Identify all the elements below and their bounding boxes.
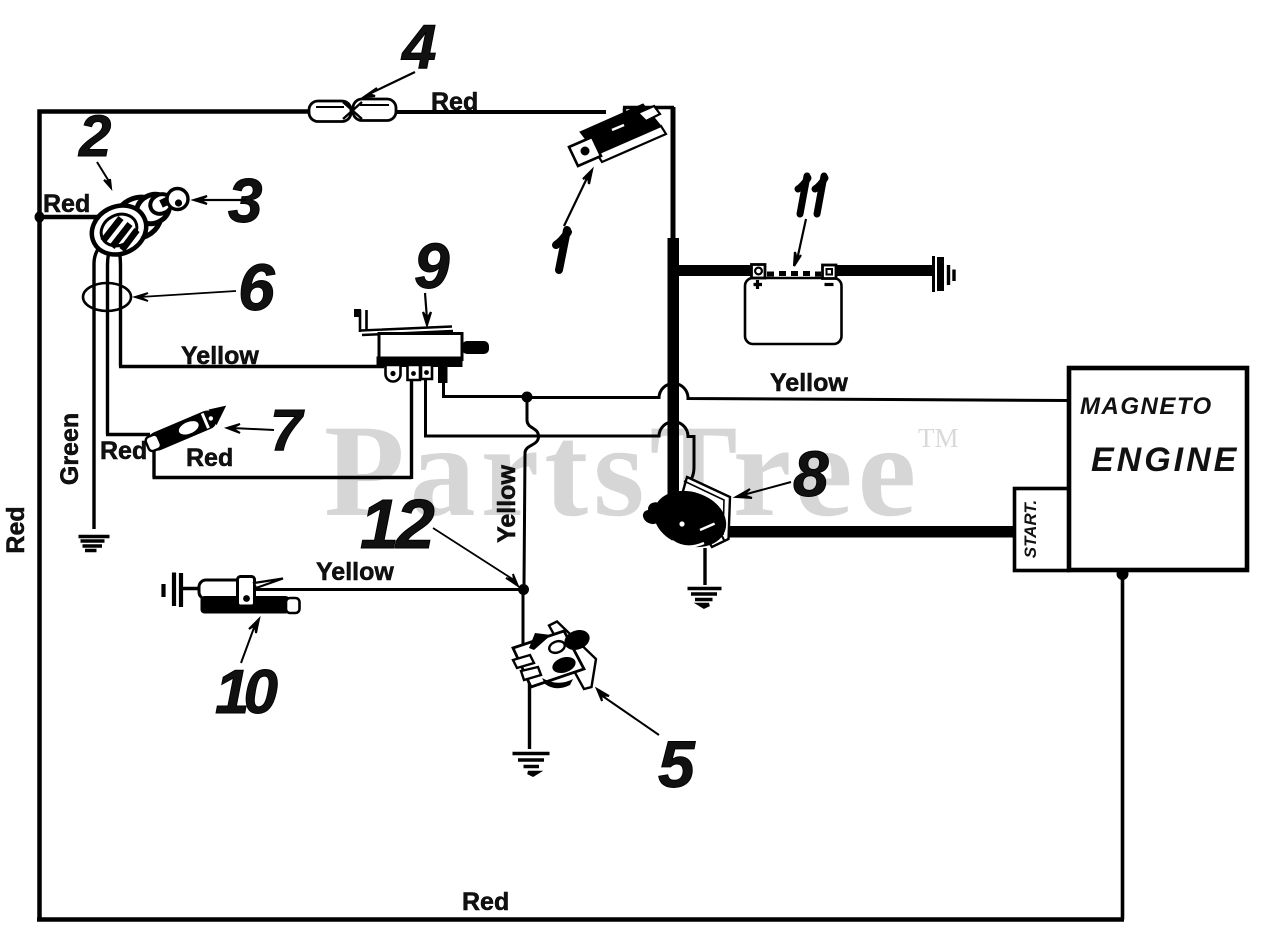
interlock switch 10 body	[199, 577, 300, 614]
label 1	[556, 230, 568, 270]
wire junction 12 down to switch5	[522, 594, 525, 651]
switch 9 terminal 2	[408, 365, 421, 380]
ignition switch 2	[83, 189, 175, 264]
svg-text:12: 12	[360, 485, 435, 563]
svg-text:Red: Red	[100, 437, 147, 465]
switch 9 plunger	[462, 341, 489, 354]
wire red top (left segment to fuse)	[38, 109, 311, 114]
svg-text:Green: Green	[56, 413, 84, 485]
wire thick battery right to ground	[834, 265, 933, 276]
svg-text:Yellow: Yellow	[181, 342, 259, 370]
svg-text:ENGINE: ENGINE	[1091, 441, 1239, 479]
svg-text:Yellow: Yellow	[770, 369, 848, 397]
svg-text:3: 3	[228, 167, 262, 236]
label 11	[798, 176, 825, 214]
wire green vertical	[94, 242, 103, 529]
wire from switch9 terminal3 to solenoid (with hops)	[424, 378, 694, 486]
ground switch5	[513, 754, 550, 776]
wire solenoid ground stem	[703, 548, 706, 585]
svg-text:Yellow: Yellow	[316, 558, 394, 586]
svg-text:START.: START.	[1021, 500, 1040, 559]
switch 9 terminal 4	[438, 364, 448, 383]
wire engine bottom to red bottom	[1121, 572, 1125, 920]
svg-text:Red: Red	[462, 888, 509, 916]
solenoid 8 body	[642, 482, 733, 556]
wire red top (fuse to rectifier)	[394, 110, 606, 114]
solenoid 8 mounting plate	[681, 477, 730, 547]
wire yellow item10 to junction 12	[256, 588, 519, 591]
node left junction	[35, 212, 45, 223]
safety switch 5 plate	[549, 622, 596, 690]
svg-text:Red: Red	[186, 444, 233, 472]
node junction engine bottom	[1117, 568, 1129, 580]
wire red bottom	[37, 917, 1124, 922]
rectifier 1	[569, 104, 666, 166]
safety switch 5 body	[513, 627, 592, 689]
svg-text:Red: Red	[2, 506, 30, 553]
wire yellow vertical with hop	[524, 401, 539, 585]
wire thick battery left	[668, 265, 753, 276]
svg-text:10: 10	[215, 658, 277, 727]
wire thick vertical (battery feed)	[671, 107, 676, 240]
svg-text:6: 6	[238, 250, 276, 324]
wire red left vertical	[37, 110, 42, 922]
svg-text:Red: Red	[431, 88, 478, 116]
svg-text:MAGNETO: MAGNETO	[1080, 393, 1213, 420]
switch 9 terminal 3	[421, 365, 432, 379]
wire red ignition to item7	[106, 245, 150, 435]
wire red to ignition switch	[39, 215, 103, 220]
diode 7	[144, 403, 231, 454]
ground battery (vertical bars)	[932, 256, 935, 292]
ground solenoid	[688, 589, 722, 608]
wire switch5 to ground	[528, 681, 531, 749]
ground green	[79, 537, 110, 551]
wire red item7 to switch9 terminal2	[153, 378, 412, 479]
wire thick solenoid to start	[718, 526, 1015, 538]
wire from switch9 terminal4 to junction	[442, 378, 523, 397]
svg-text:Red: Red	[43, 190, 90, 218]
node junction 12	[518, 584, 529, 595]
battery 11	[745, 265, 842, 345]
wire yellow junction to magneto engine (hop over thick wire)	[531, 383, 1069, 400]
svg-text:2: 2	[78, 104, 111, 169]
switch 9 flange	[377, 357, 463, 368]
switch 9 bracket	[354, 309, 453, 335]
switch 9 terminal 1	[386, 365, 401, 382]
key 3	[167, 189, 188, 210]
svg-text:Yellow: Yellow	[493, 465, 521, 543]
connector pair 4	[309, 99, 396, 122]
start box	[1015, 489, 1069, 571]
node junction A	[522, 392, 533, 403]
svg-text:8: 8	[793, 438, 829, 510]
switch 9 body	[377, 334, 490, 384]
magneto engine box	[1069, 368, 1247, 570]
wire loop 6	[83, 283, 131, 311]
svg-text:7: 7	[270, 398, 305, 463]
svg-text:TM: TM	[918, 423, 959, 453]
interlock switch 10 ground	[164, 573, 202, 608]
wire yellow ignition to switch9 terminal1	[119, 247, 384, 367]
svg-text:5: 5	[658, 727, 696, 801]
wire rectifier link to right vertical	[623, 108, 674, 119]
svg-text:4: 4	[400, 13, 436, 82]
svg-text:9: 9	[414, 230, 450, 302]
